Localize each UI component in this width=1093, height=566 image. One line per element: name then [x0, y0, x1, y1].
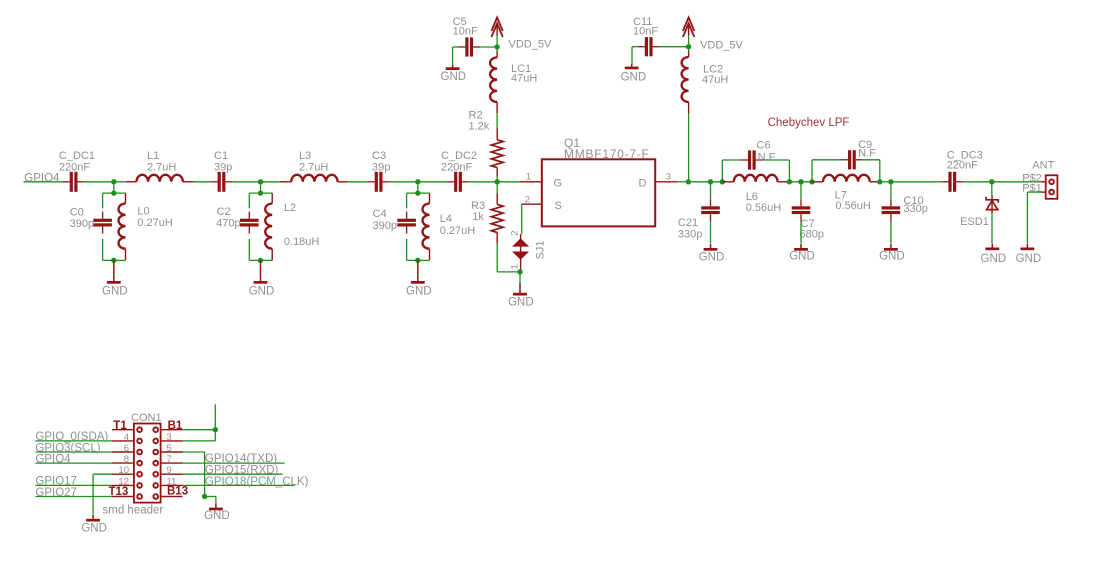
svg-text:GND: GND — [102, 285, 128, 297]
wire C_DC1 to node1 — [85, 181, 114, 183]
node tank bottom — [415, 258, 420, 263]
wire L3 to C3 — [348, 181, 367, 183]
ground C5 — [452, 65, 454, 67]
svg-text:10nF: 10nF — [453, 26, 478, 38]
node6 C21 — [708, 179, 713, 184]
svg-text:L3: L3 — [299, 150, 311, 162]
net GPIO15(RXD) — [183, 473, 283, 475]
wire tank ind branch — [125, 193, 127, 203]
node B13 ground junction — [202, 494, 207, 499]
svg-text:2.7uH: 2.7uH — [147, 161, 176, 173]
svg-text:C21: C21 — [678, 217, 698, 229]
wire node1 to L1 — [114, 181, 126, 183]
ground C21 — [710, 221, 712, 243]
svg-text:GND: GND — [789, 251, 815, 263]
svg-text:39p: 39p — [214, 161, 232, 173]
svg-text:GND: GND — [879, 251, 905, 263]
wire C9 riser left — [811, 160, 813, 182]
wire C6 riser right — [763, 159, 790, 161]
svg-text:0.18uH: 0.18uH — [284, 236, 320, 248]
svg-text:C1: C1 — [214, 150, 228, 162]
svg-text:8: 8 — [124, 454, 129, 465]
wire tank ind branch — [271, 193, 273, 203]
transistor Q1 MMBF170-7-F — [542, 159, 655, 226]
node tank top — [415, 190, 420, 195]
inductor L3 — [281, 181, 292, 183]
ground CON1 left — [92, 515, 94, 519]
node tank bottom — [111, 258, 116, 263]
capacitor C7 — [800, 182, 802, 199]
wire LC1 to R2 — [496, 113, 498, 128]
node11 C9 right — [877, 179, 882, 184]
svg-text:C6: C6 — [757, 140, 771, 152]
resistor R2 — [496, 129, 498, 140]
wire pin5 to ground junction — [183, 451, 205, 453]
svg-text:C_DC2: C_DC2 — [441, 150, 477, 162]
ground SJ1 — [519, 272, 521, 283]
wire node12 to C_DC3 — [891, 181, 941, 183]
wire pin10 to ground — [93, 473, 112, 475]
capacitor C4 — [406, 212, 408, 219]
svg-text:MMBF170-7-F: MMBF170-7-F — [564, 147, 650, 161]
svg-text:L4: L4 — [440, 213, 452, 225]
svg-text:smd header: smd header — [103, 504, 164, 516]
CON1 pin leads right — [161, 429, 183, 431]
ground tank2 — [260, 260, 262, 276]
wire node4 to Q1 gate — [497, 181, 520, 183]
node12 C10 — [888, 179, 893, 184]
svg-text:47uH: 47uH — [511, 72, 537, 84]
svg-text:GND: GND — [204, 510, 230, 522]
svg-text:9: 9 — [167, 465, 172, 476]
wire C1 to node2 — [233, 181, 261, 183]
wire L1 to C1 — [194, 181, 211, 183]
wire tank bottom bar — [407, 259, 430, 261]
ground C7 — [800, 221, 802, 243]
ground tank1 — [113, 260, 115, 276]
wire C_DC2 to node4 — [469, 181, 497, 183]
net GPIO17 — [35, 484, 112, 486]
wire tank top bar — [407, 192, 430, 194]
wire tank drop — [417, 182, 419, 193]
svg-text:C3: C3 — [372, 150, 386, 162]
svg-text:Chebychev LPF: Chebychev LPF — [768, 117, 850, 129]
capacitor C_DC1 — [63, 181, 70, 183]
node tank top — [111, 190, 116, 195]
svg-text:G: G — [554, 178, 563, 190]
svg-text:1: 1 — [510, 264, 521, 269]
wire tank cap branch lower — [102, 239, 104, 260]
svg-text:GND: GND — [621, 72, 647, 84]
svg-text:C0: C0 — [70, 207, 84, 219]
svg-text:GPIO4: GPIO4 — [24, 172, 60, 184]
capacitor C3 — [368, 181, 375, 183]
wire tank top bar — [249, 192, 272, 194]
wire tank drop — [260, 182, 262, 193]
svg-text:N.F: N.F — [758, 152, 776, 164]
diode ESD1 — [991, 182, 993, 195]
capacitor C21 — [710, 182, 712, 199]
net GPIO4 bottom — [35, 462, 112, 464]
wire C3 to node3 — [390, 181, 418, 183]
resistor R3 — [496, 182, 498, 193]
svg-text:220nF: 220nF — [59, 161, 90, 173]
node VDD left — [494, 44, 499, 49]
svg-text:C_DC1: C_DC1 — [59, 150, 95, 162]
capacitor C9 — [841, 159, 848, 161]
wire C_DC3 to node13 — [963, 181, 992, 183]
inductor L1 — [126, 181, 136, 183]
ground C11 — [631, 64, 633, 66]
connector CON1 box — [134, 424, 161, 503]
capacitor C5 — [452, 47, 454, 65]
wire tank bottom bar — [249, 259, 272, 261]
wire node13 to ANT — [992, 181, 1041, 183]
svg-text:330p: 330p — [903, 203, 927, 215]
svg-text:VDD_5V: VDD_5V — [700, 40, 743, 52]
svg-text:C4: C4 — [373, 208, 387, 220]
node13 ESD — [989, 179, 994, 184]
node VDD right — [686, 44, 691, 49]
node at tank2 — [258, 179, 263, 184]
node10 C9 left — [809, 179, 814, 184]
svg-text:39p: 39p — [372, 161, 390, 173]
CON1 pads right column — [153, 427, 158, 432]
svg-text:10nF: 10nF — [633, 26, 658, 38]
capacitor C6 — [741, 159, 748, 161]
wire vertical stub B1-pin3 — [214, 404, 216, 441]
wire R3 to SJ1 net — [496, 244, 498, 272]
wire tank bottom bar — [103, 259, 126, 261]
wire tank cap branch lower — [406, 239, 408, 260]
CON1 pads left column — [137, 427, 142, 432]
svg-text:GND: GND — [508, 297, 534, 309]
connector ANT — [1046, 175, 1058, 199]
svg-text:47uH: 47uH — [702, 74, 728, 86]
capacitor C1 — [211, 181, 218, 183]
svg-text:10: 10 — [118, 465, 129, 476]
svg-text:4: 4 — [124, 432, 129, 443]
node SJ1 bottom — [517, 269, 522, 274]
node tank top — [258, 190, 263, 195]
svg-text:0.27uH: 0.27uH — [137, 217, 173, 229]
svg-text:N.F: N.F — [858, 148, 876, 160]
wire node11 to node12 — [880, 181, 891, 183]
wire B13 junction to ground — [205, 496, 216, 498]
node9 C7 — [798, 179, 803, 184]
svg-text:GND: GND — [981, 253, 1007, 265]
net GPIO18(PCM_CLK) — [183, 484, 295, 486]
svg-text:0.56uH: 0.56uH — [746, 202, 782, 214]
svg-text:ESD1: ESD1 — [960, 216, 989, 228]
svg-text:B1: B1 — [168, 420, 183, 432]
net GPIO_0(SDA) — [35, 440, 112, 442]
svg-text:ANT: ANT — [1032, 160, 1054, 172]
wire tank cap branch lower — [248, 239, 250, 260]
node5 drain — [686, 179, 691, 184]
wire ANT P$1 to ground — [1027, 191, 1040, 193]
svg-text:2: 2 — [525, 194, 530, 205]
inductor LC1 — [496, 47, 498, 51]
ground ESD1 — [991, 213, 993, 243]
svg-text:GPIO27: GPIO27 — [35, 487, 77, 499]
capacitor C11 — [631, 47, 633, 65]
supply VDD_5V right arrow — [683, 18, 694, 32]
svg-text:2.7uH: 2.7uH — [299, 161, 328, 173]
ground tank3 — [417, 260, 419, 276]
capacitor C2 — [248, 212, 250, 219]
wire tank cap branch upper — [102, 193, 104, 208]
svg-text:D: D — [639, 178, 647, 190]
svg-text:1.2k: 1.2k — [469, 121, 490, 133]
svg-text:470p: 470p — [216, 218, 240, 230]
svg-text:R3: R3 — [471, 200, 485, 212]
svg-text:GPIO18(PCM_CLK): GPIO18(PCM_CLK) — [205, 476, 309, 488]
svg-text:GND: GND — [699, 252, 725, 264]
wire B1 to stub — [183, 429, 216, 431]
svg-text:VDD_5V: VDD_5V — [509, 39, 552, 51]
capacitor C_DC2 — [447, 181, 454, 183]
capacitor C10 — [890, 182, 892, 199]
svg-text:S: S — [555, 200, 562, 212]
svg-text:SJ1: SJ1 — [535, 241, 547, 260]
node at tank3 — [415, 179, 420, 184]
svg-text:3: 3 — [167, 432, 172, 443]
wire node2 to L3 — [261, 181, 281, 183]
CON1 pin leads left — [112, 429, 134, 431]
svg-text:680p: 680p — [800, 228, 824, 240]
wire: GPIO4 net to C_DC1 — [24, 181, 63, 183]
wire node8 to node9 — [789, 181, 812, 183]
ground CON1 right — [215, 504, 217, 508]
capacitor C0 — [102, 212, 104, 219]
svg-text:6: 6 — [124, 443, 129, 454]
ground C10 — [890, 221, 892, 243]
svg-text:7: 7 — [167, 454, 172, 465]
wire node3 to C_DC2 — [418, 181, 447, 183]
svg-text:R2: R2 — [469, 110, 483, 122]
svg-text:1: 1 — [526, 172, 531, 183]
solder jumper SJ1 — [520, 234, 522, 272]
svg-text:3: 3 — [666, 172, 671, 183]
svg-text:GND: GND — [81, 522, 107, 534]
svg-text:GPIO15(RXD): GPIO15(RXD) — [205, 464, 279, 476]
svg-text:L2: L2 — [284, 202, 296, 214]
wire node5 to node6 — [688, 181, 722, 183]
net GPIO14(TXD) — [183, 462, 285, 464]
node at tank1 — [111, 179, 116, 184]
svg-text:390p: 390p — [70, 218, 94, 230]
svg-text:1k: 1k — [472, 211, 484, 223]
wire tank top bar — [103, 192, 126, 194]
node B1 — [213, 427, 218, 432]
svg-text:0.56uH: 0.56uH — [835, 200, 871, 212]
svg-text:12: 12 — [118, 476, 129, 487]
wire LC2 to node5 — [688, 113, 690, 182]
svg-text:T1: T1 — [113, 420, 127, 432]
node tank bottom — [258, 258, 263, 263]
svg-text:GND: GND — [406, 285, 432, 297]
supply VDD_5V left arrow — [491, 18, 502, 32]
svg-text:GND: GND — [441, 71, 467, 83]
inductor L2 — [265, 204, 272, 249]
wire tank cap branch upper — [406, 193, 408, 208]
capacitor C_DC3 — [941, 181, 948, 183]
svg-text:330p: 330p — [678, 228, 702, 240]
wire tank ind branch — [429, 193, 431, 203]
svg-text:5: 5 — [167, 443, 172, 454]
svg-text:GND: GND — [249, 285, 275, 297]
net GPIO3(SCL) — [35, 451, 112, 453]
inductor LC2 — [688, 47, 690, 51]
wire Q1 drain to node5 — [677, 181, 688, 183]
wire tank drop — [113, 182, 115, 193]
inductor L7 — [812, 181, 823, 183]
wire Q1 source to SJ1 — [521, 204, 523, 234]
svg-text:220nF: 220nF — [947, 160, 978, 172]
wire C6 riser left — [721, 160, 723, 182]
svg-text:11: 11 — [167, 476, 177, 487]
wire C9 riser right — [863, 159, 880, 161]
svg-text:CON1: CON1 — [131, 412, 162, 424]
net GPIO27 — [35, 496, 112, 498]
svg-text:220nF: 220nF — [441, 161, 472, 173]
svg-text:0.27uH: 0.27uH — [440, 225, 476, 237]
svg-text:GPIO4: GPIO4 — [35, 453, 71, 465]
inductor L4 — [423, 204, 430, 249]
svg-text:C2: C2 — [217, 206, 231, 218]
svg-text:2: 2 — [510, 231, 521, 236]
inductor L0 — [118, 204, 125, 249]
node7 C6 left — [720, 179, 725, 184]
svg-text:L0: L0 — [137, 206, 149, 218]
svg-text:L1: L1 — [147, 150, 159, 162]
wire R2 to rail — [496, 177, 498, 182]
wire tank cap branch upper — [248, 193, 250, 208]
ground ANT — [1026, 244, 1028, 248]
svg-text:GND: GND — [1016, 253, 1042, 265]
node8 C6 right — [787, 179, 792, 184]
inductor L6 — [722, 181, 734, 183]
node4 gate bias — [495, 179, 500, 184]
svg-text:390p: 390p — [373, 220, 397, 232]
